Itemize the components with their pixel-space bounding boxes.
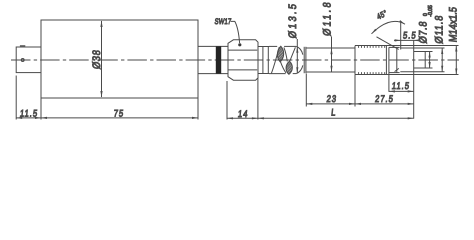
svg-text:23: 23 [326,93,338,104]
svg-text:27.5: 27.5 [375,93,395,104]
11.5 dimension (left) [16,76,41,120]
svg-text:Ø11.8: Ø11.8 [434,14,446,44]
svg-text:14: 14 [237,108,249,119]
11.5 dimension (right) [389,80,414,92]
thread section step face [354,46,356,75]
SW17 label and leader [214,18,241,46]
svg-text:11.5: 11.5 [19,107,38,118]
braid end collar [304,47,306,73]
27.5 dimension [355,93,414,105]
svg-text:L: L [331,107,337,118]
body cylinder [41,20,198,98]
svg-text:Ø11.8: Ø11.8 [322,0,334,37]
collar after hex [258,47,269,74]
thread end face [385,46,387,75]
svg-text:11.5: 11.5 [391,80,410,91]
neck between body and hex [198,46,228,73]
connector stub [16,47,41,73]
tube O11.8 [306,48,355,72]
L dimension [258,78,414,119]
O11.8 dimension (right) [434,14,446,72]
O7.8 dimension with tolerance [418,5,434,68]
chamfer 45 degree edges [377,37,399,72]
O11.8 dimension (tube) [322,0,334,72]
flexible braid section [265,44,315,78]
mid section [389,47,400,72]
O38 dimension [92,20,104,97]
thread crest ticks [359,46,385,75]
tip O7.8 [414,52,433,69]
groove wall / 11.5 extension [388,47,390,91]
svg-text:M14x1.5: M14x1.5 [448,6,460,43]
14 dimension [227,81,258,120]
stub center hole [21,59,24,62]
23 dimension [306,74,355,107]
svg-text:Ø7.8: Ø7.8 [418,20,430,44]
shoulder section [400,21,444,72]
svg-text:Ø13.5: Ø13.5 [287,1,299,39]
45 degree angle arc and label [371,7,405,34]
M14x1.5 dimension [448,6,460,75]
svg-text:5.5: 5.5 [403,30,418,41]
seal ring (dark) [216,46,221,73]
svg-text:Ø38: Ø38 [92,49,104,70]
75 dimension [41,98,198,120]
stub key bump [20,45,25,47]
braid hatched leaf lower [286,61,292,74]
thread M14 section edges + extension to M14 dim [355,46,459,75]
5.5 dimension [394,30,421,42]
hex nut SW17 [228,40,258,80]
centerline [11,59,459,61]
O13.5 dimension [287,1,299,73]
svg-text:75: 75 [113,107,125,118]
long extension line at tip step [413,40,415,118]
svg-text:45°: 45° [375,7,388,21]
svg-text:SW17: SW17 [214,18,232,26]
